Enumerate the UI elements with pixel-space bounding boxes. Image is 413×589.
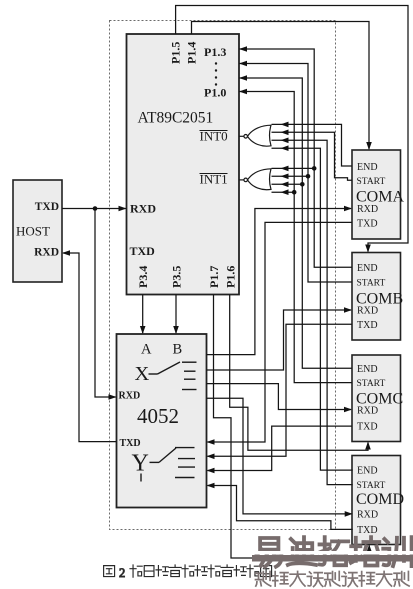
wire COMB END to P1.3 <box>240 49 353 267</box>
wire COMC END to P1.1 <box>240 78 353 368</box>
arrow into COMC RXD <box>344 407 352 413</box>
arrow into INT1 in1 <box>281 166 289 172</box>
arrow into COMC bottom <box>365 442 371 450</box>
arrow into COMB RXD <box>344 307 352 313</box>
wire P1.4 chain to COMA top <box>192 22 370 150</box>
arrow into INT0 in1 <box>281 122 289 128</box>
wire X0 to COMA RXD <box>207 209 352 355</box>
arrow into 4052 Y2 <box>207 468 215 474</box>
svg-text:P1.6: P1.6 <box>224 266 238 288</box>
svg-text:START: START <box>357 279 386 289</box>
junction dot INT1 in2 <box>306 174 311 179</box>
mux U2 4052 <box>117 334 207 508</box>
svg-text:START: START <box>357 379 386 389</box>
arrow into INT1 in2 <box>281 174 289 180</box>
svg-text:P1.0: P1.0 <box>204 86 226 100</box>
wire COMC TXD to Y2 <box>208 426 353 470</box>
wire P1.7 chain to COMD bottom <box>214 295 370 559</box>
mux X selector symbol <box>149 362 197 390</box>
serial module box COMA <box>352 150 404 239</box>
host box HOST <box>13 180 62 282</box>
svg-text:B: B <box>173 342 183 358</box>
arrow into MCU P1.1 <box>239 75 247 81</box>
arrow into INT0 in2 <box>281 130 289 136</box>
junction dot INT1 in1 <box>312 166 317 171</box>
svg-text:P3.5: P3.5 <box>170 266 184 288</box>
watermark slogan 射频和天线设计专家 <box>255 571 409 586</box>
svg-text:TXD: TXD <box>357 422 378 433</box>
serial module box COMC <box>352 355 403 442</box>
arrow into INT1 in3 <box>281 182 289 188</box>
mux Y selector symbol <box>150 448 196 478</box>
svg-text:4052: 4052 <box>137 404 179 428</box>
arrow into 4052 B <box>173 326 179 334</box>
svg-text:P3.4: P3.4 <box>136 266 150 288</box>
wire tap INT1 in2 <box>272 175 309 177</box>
arrow into MCU P1.3 <box>239 46 247 52</box>
svg-text:X: X <box>135 363 150 385</box>
svg-text:START: START <box>357 177 386 187</box>
svg-text:TXD: TXD <box>130 244 156 258</box>
wire COMA END to INT0 in1 <box>272 124 353 166</box>
arrow into 4052 A <box>140 326 146 334</box>
wire COMB START to P1.2 <box>240 64 353 283</box>
svg-text:HOST: HOST <box>16 224 50 239</box>
svg-text:END: END <box>357 466 378 477</box>
arrow into INT1 in4 <box>281 189 289 195</box>
arrow into 4052 RXD <box>109 394 117 400</box>
wire COMC START to P1.0 <box>240 92 353 383</box>
wire X1 to COMB RXD <box>207 310 352 370</box>
wire 4052 TXD to host RXD <box>63 253 117 442</box>
wire P3.5 to B <box>175 295 177 334</box>
junction dot host TXD branch <box>93 206 98 211</box>
wire COMA START to INT0 in2 <box>272 132 353 180</box>
svg-text:AT89C2051: AT89C2051 <box>138 110 214 127</box>
svg-text:RXD: RXD <box>357 204 378 215</box>
wire COMD END to INT0 in4 <box>272 148 353 470</box>
dashed module border <box>110 21 336 530</box>
wire COMD TXD to Y3 <box>208 486 353 530</box>
svg-text:P1.3: P1.3 <box>204 45 226 59</box>
wire P3.4 to A <box>142 295 144 334</box>
wire COMB TXD to Y1 <box>208 324 353 456</box>
wire COMA TXD to Y0 <box>208 222 353 442</box>
wire X2 to COMC RXD <box>207 384 352 410</box>
arrow into INT0 in4 <box>281 145 289 151</box>
svg-text:P1.7: P1.7 <box>207 266 221 288</box>
wire COMD START to INT0 in3 <box>272 140 353 484</box>
wire P1.5 chain to COMB top <box>176 6 408 252</box>
svg-text:RXD: RXD <box>34 247 59 259</box>
svg-text:RXD: RXD <box>357 510 378 521</box>
svg-text:TXD: TXD <box>35 201 59 213</box>
arrow into MCU P1.2 <box>239 61 247 67</box>
svg-text:P1.5: P1.5 <box>169 42 183 64</box>
svg-text:P1.4: P1.4 <box>185 42 199 64</box>
arrow into MCU P1.0 <box>239 89 247 95</box>
arrow into INT0 in3 <box>281 138 289 144</box>
junction dot INT1 in4 <box>292 190 297 195</box>
arrow into 4052 Y0 <box>207 439 215 445</box>
svg-text:TXD: TXD <box>357 320 378 331</box>
svg-text:TXD: TXD <box>357 525 378 536</box>
caption 图2串口扩展模块拓扑结构图 (fake glyphs) <box>104 565 272 580</box>
wire X3 to COMD RXD <box>207 398 352 514</box>
junction dot INT1 in3 <box>300 182 305 187</box>
arrow into COMD bottom <box>366 545 372 553</box>
wire tap INT1 in4 <box>272 191 295 193</box>
svg-text:RXD: RXD <box>357 306 378 317</box>
svg-text:COMA: COMA <box>356 189 404 206</box>
svg-text:COMD: COMD <box>356 491 404 508</box>
svg-text:START: START <box>357 481 386 491</box>
svg-text:RXD: RXD <box>357 406 378 417</box>
svg-text:END: END <box>357 263 378 274</box>
svg-text:TXD: TXD <box>357 219 378 230</box>
watermark logo 易迪拓培训 <box>257 537 412 567</box>
svg-text:Y: Y <box>132 451 149 477</box>
watermark logo bar <box>252 551 413 555</box>
serial module box COMD <box>352 456 404 545</box>
arrow into COMB top <box>365 245 371 253</box>
or-gate U4 INT1 (mirrored, inputs right, bubble output) <box>239 169 271 190</box>
arrow into 4052 Y3 <box>207 483 215 489</box>
or-gate U3 INT0 (mirrored, inputs right, bubble output) <box>239 125 271 146</box>
wire host TXD to MCU RXD <box>62 208 126 210</box>
arrow into MCU RXD <box>119 206 127 212</box>
wire tap INT1 in1 <box>272 167 315 169</box>
wire P1.6 chain to COMC bottom <box>230 295 368 451</box>
arrow into HOST RXD <box>62 250 70 256</box>
svg-text:RXD: RXD <box>130 202 156 216</box>
arrow into 4052 Y1 <box>207 454 215 460</box>
svg-text:RXD: RXD <box>119 391 141 402</box>
arrow into COMD RXD <box>345 511 353 517</box>
arrow into COMA top <box>366 142 372 150</box>
mcu U1 AT89C2051 <box>127 34 240 295</box>
svg-text:END: END <box>357 162 378 173</box>
wire tap INT1 in3 <box>272 183 303 185</box>
wire branch to 4052 RXD <box>95 209 116 398</box>
svg-text:2: 2 <box>119 566 125 580</box>
svg-text:TXD: TXD <box>120 438 141 449</box>
svg-text:A: A <box>141 342 152 358</box>
serial module box COMB <box>352 253 403 341</box>
svg-text:END: END <box>357 364 378 375</box>
arrow into COMA RXD <box>344 206 352 212</box>
